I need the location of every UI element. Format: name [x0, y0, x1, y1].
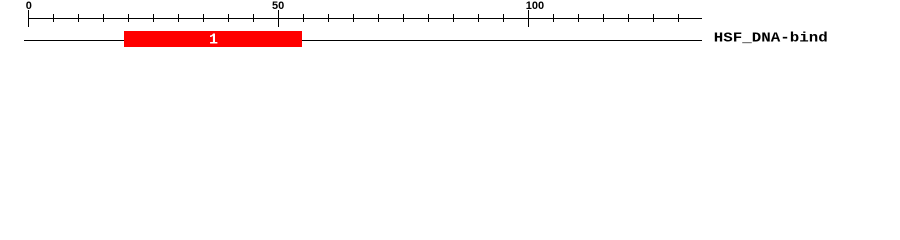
ruler major tick 0 — [28, 10, 30, 27]
ruler major tick 50 — [278, 10, 280, 27]
sequence line — [24, 40, 702, 42]
svg-text:0: 0 — [26, 0, 32, 12]
svg-text:50: 50 — [272, 0, 284, 12]
ruler minor ticks — [54, 14, 679, 22]
domain box 1 (red) — [124, 31, 302, 47]
ruler line — [28, 18, 702, 20]
svg-text:1: 1 — [209, 32, 218, 49]
svg-text:100: 100 — [526, 0, 544, 12]
ruler major tick 100 — [528, 10, 530, 27]
svg-text:HSF_DNA-bind: HSF_DNA-bind — [714, 31, 828, 47]
